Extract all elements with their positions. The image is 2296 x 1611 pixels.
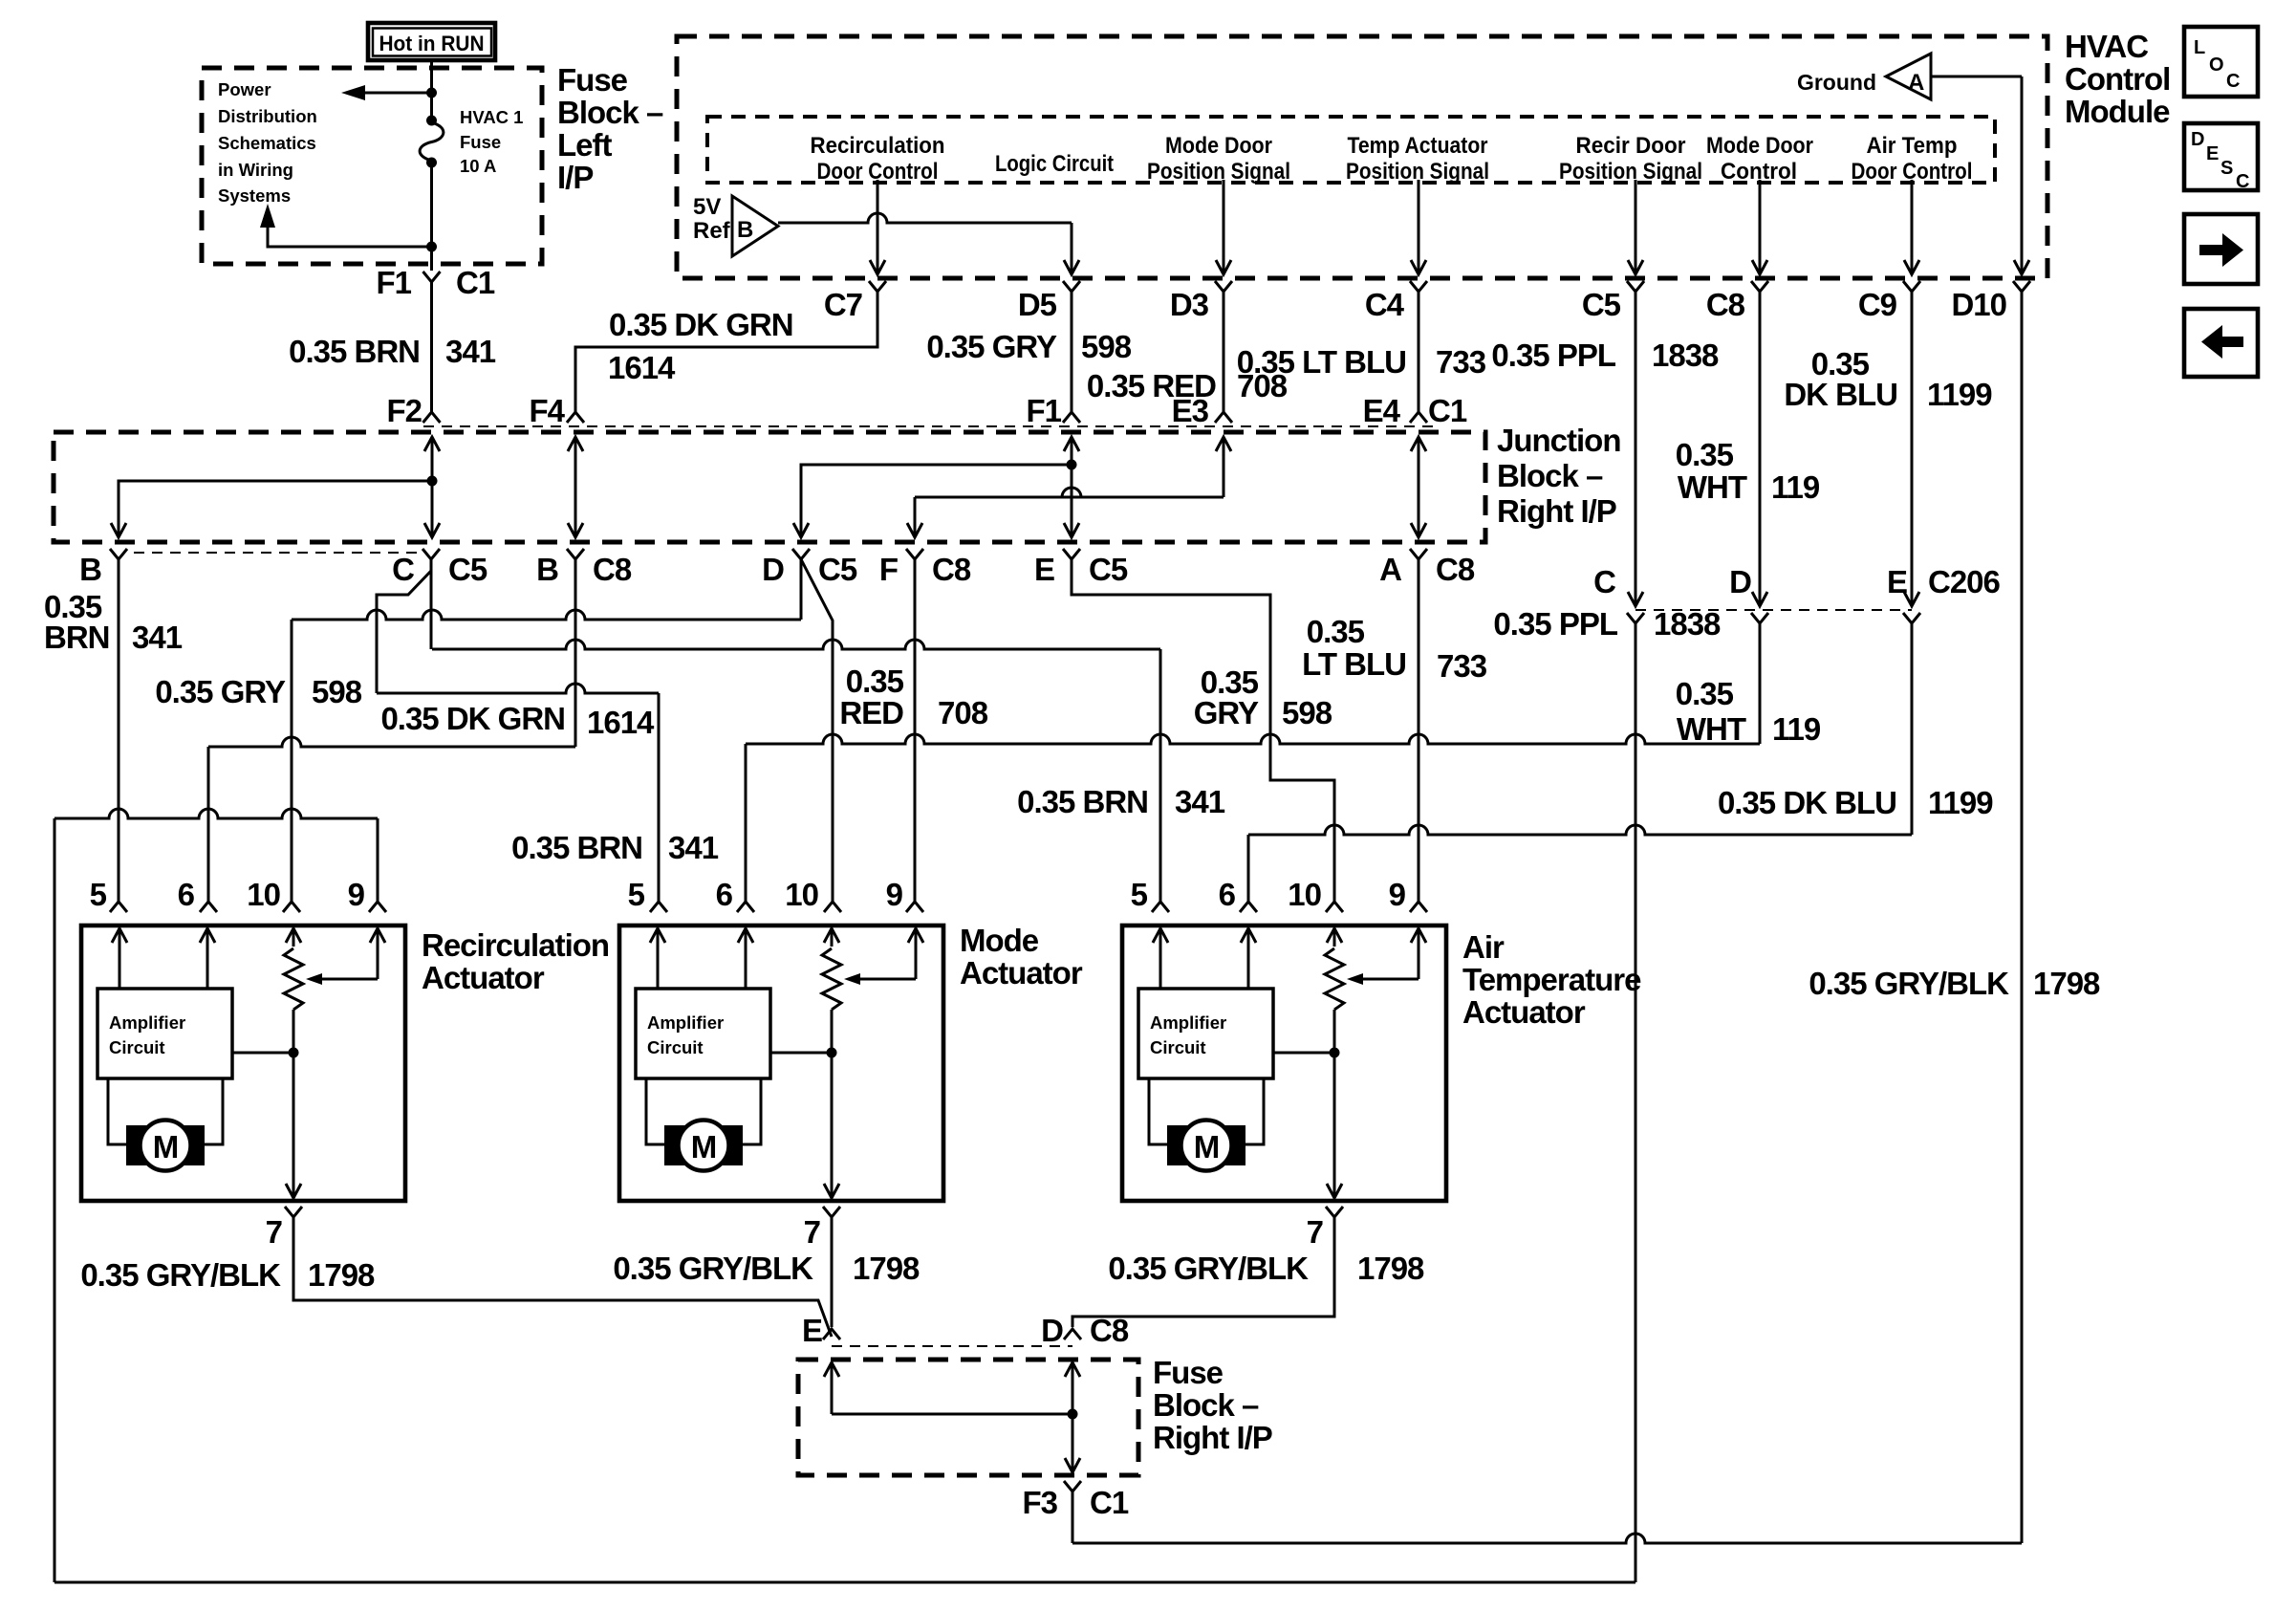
svg-text:A: A: [1379, 552, 1401, 587]
wire mode pin6 drop: [745, 744, 747, 902]
connector C206-E: [1903, 613, 1920, 623]
thin dashed connector line above junction block: [423, 425, 1439, 427]
wire C8 column to bus WHT 119: [1759, 292, 1762, 606]
wire C9 air temp door control: [1911, 180, 1914, 274]
svg-text:Fuse: Fuse: [1153, 1355, 1224, 1390]
svg-text:M: M: [1194, 1129, 1220, 1165]
connector F3/C1: [1064, 1481, 1081, 1491]
svg-text:708: 708: [938, 695, 988, 730]
bottom bus PPL 1838 return: [54, 1581, 1635, 1584]
svg-text:Amplifier: Amplifier: [109, 1012, 185, 1033]
svg-text:6: 6: [716, 877, 733, 912]
HVAC control module outer dashed box: [677, 36, 2047, 278]
connector F1/C1 of fuse block: [423, 272, 441, 282]
air temperature actuator motor brush right: [1224, 1125, 1245, 1165]
svg-text:D3: D3: [1170, 287, 1209, 322]
svg-text:C1: C1: [1428, 393, 1467, 428]
air temperature actuator motor brush left: [1167, 1125, 1188, 1165]
svg-text:Recirculation: Recirculation: [811, 133, 945, 159]
connector C4 below HVAC module: [1410, 281, 1427, 292]
svg-text:F: F: [879, 552, 898, 587]
node: junction dot at power arrow: [426, 88, 437, 98]
svg-text:C: C: [1593, 564, 1615, 599]
svg-text:DK BLU: DK BLU: [1784, 377, 1897, 412]
recirculation actuator amp output wire: [232, 1052, 293, 1055]
svg-text:Right I/P: Right I/P: [1153, 1420, 1272, 1455]
recirculation actuator wiper arrow from pin9: [320, 978, 378, 981]
recirculation actuator pin 6 entry arrow: [206, 928, 209, 968]
connector B below junction block: [110, 549, 127, 559]
svg-text:0.35: 0.35: [1676, 437, 1734, 472]
svg-text:D: D: [1729, 564, 1751, 599]
connector D3 below HVAC module: [1215, 281, 1232, 292]
svg-text:Junction: Junction: [1497, 423, 1621, 458]
svg-text:HVAC: HVAC: [2065, 29, 2148, 64]
connector C/C5 below junction block: [422, 549, 440, 559]
svg-text:C5: C5: [448, 552, 487, 587]
connector C9 below HVAC module: [1903, 281, 1920, 292]
connector D/C5 below junction block: [792, 549, 810, 559]
bottom bus ground return: [1072, 1534, 2022, 1543]
svg-text:C5: C5: [818, 552, 857, 587]
svg-text:Module: Module: [2065, 94, 2170, 129]
svg-text:D: D: [2191, 129, 2204, 150]
svg-text:0.35 PPL: 0.35 PPL: [1491, 337, 1615, 373]
svg-text:733: 733: [1437, 648, 1487, 684]
svg-text:7: 7: [266, 1214, 282, 1250]
mode actuator resistor position sensor: [822, 948, 841, 1010]
wire recirc pin10 drop: [291, 620, 293, 902]
wire D10 ground long drop: [2021, 292, 2024, 1543]
recirculation actuator actuator box: [81, 925, 405, 1201]
HVAC module inner dashed box (logic): [707, 117, 1995, 183]
wire F/C8 0.35 RED 708 to mode pin9: [914, 559, 917, 902]
connector C7 below HVAC module: [869, 281, 886, 292]
svg-text:M: M: [691, 1129, 717, 1165]
wire C8 mode door control: [1759, 180, 1762, 274]
svg-text:E: E: [802, 1313, 822, 1348]
air temperature actuator wire pin6 to amplifier: [1247, 968, 1250, 989]
svg-text:0.35 LT BLU: 0.35 LT BLU: [1237, 344, 1406, 380]
svg-text:1614: 1614: [608, 350, 676, 385]
svg-text:Actuator: Actuator: [1462, 994, 1586, 1030]
svg-text:Ref: Ref: [693, 218, 731, 244]
air temperature actuator pin 10 entry arrow: [1333, 928, 1336, 947]
junction block right I/P dashed box: [54, 432, 1485, 542]
bus1 0.35 GRY 598 to recirc pin10: [292, 610, 801, 620]
fuse block internal E branch: [831, 1362, 834, 1414]
junction internal E3-F link: [1223, 437, 1225, 497]
svg-text:O: O: [2209, 54, 2224, 76]
recirculation actuator motor brush left: [126, 1125, 147, 1165]
svg-text:598: 598: [1081, 329, 1132, 364]
svg-text:10: 10: [1288, 877, 1321, 912]
wire ground A to D10: [1931, 76, 2022, 78]
recirculation actuator node amp output dot: [289, 1048, 299, 1058]
LOC box: [2184, 27, 2258, 97]
svg-text:Block –: Block –: [1497, 458, 1603, 493]
svg-text:Distribution: Distribution: [218, 106, 317, 126]
svg-text:Fuse: Fuse: [557, 62, 628, 98]
svg-text:C8: C8: [1436, 552, 1475, 587]
junction internal E4 column: [1418, 437, 1420, 537]
svg-text:in Wiring: in Wiring: [218, 160, 293, 180]
connector E3 entry: [1215, 412, 1232, 423]
svg-text:1798: 1798: [308, 1257, 375, 1293]
svg-text:C5: C5: [1582, 287, 1621, 322]
connector D5 below HVAC module: [1063, 281, 1080, 292]
air temperature actuator wiper arrow from pin9: [1361, 978, 1419, 981]
svg-text:10: 10: [247, 877, 280, 912]
svg-text:Circuit: Circuit: [1150, 1037, 1206, 1057]
svg-text:Position Signal: Position Signal: [1559, 159, 1702, 185]
air temperature actuator pin 5 entry arrow: [1159, 928, 1162, 968]
svg-text:0.35 GRY: 0.35 GRY: [155, 674, 286, 709]
wire mode pin7 0.35 GRY/BLK: [831, 1217, 834, 1327]
node junction dot F1-D: [1067, 460, 1077, 470]
svg-text:0.35 DK GRN: 0.35 DK GRN: [609, 307, 793, 342]
power distribution return arrow (up): [268, 228, 432, 247]
mode actuator amp output wire: [770, 1052, 832, 1055]
mode actuator amplifier circuit box: [636, 989, 770, 1078]
wire 5V ref to logic circuit D5: [778, 213, 1072, 223]
svg-text:0.35 GRY/BLK: 0.35 GRY/BLK: [80, 1257, 281, 1293]
svg-text:I/P: I/P: [557, 160, 593, 195]
svg-text:Amplifier: Amplifier: [647, 1012, 724, 1033]
svg-text:C: C: [2236, 171, 2249, 192]
wire from Hot in RUN into fuse block: [430, 58, 433, 93]
svg-text:Block –: Block –: [1153, 1387, 1259, 1423]
wire C7 to F4 (0.35 DK GRN 1614): [575, 292, 877, 412]
bus4L DK GRN to recirc pin6: [208, 737, 575, 747]
connector B/C8 below junction block: [567, 549, 584, 559]
svg-text:0.35 DK BLU: 0.35 DK BLU: [1718, 785, 1896, 820]
wire C/C5 diagonal to x394: [377, 571, 431, 693]
mode actuator motor brush left: [664, 1125, 685, 1165]
recirculation actuator motor brush right: [184, 1125, 205, 1165]
wire recirc pin6 drop: [207, 747, 210, 902]
power feed box: Hot in RUN label box: [368, 23, 495, 60]
node: junction dot bottom of fuse block: [426, 242, 437, 252]
svg-text:5: 5: [628, 877, 645, 912]
svg-text:C1: C1: [456, 265, 495, 300]
wire D3 to E3 (0.35 RED 708): [1223, 292, 1225, 412]
fuse block right I/P dashed box (bottom): [798, 1360, 1138, 1475]
fuse block left I/P dashed box: [202, 68, 542, 264]
svg-text:C: C: [392, 552, 414, 587]
bus3 0.35 BRN 341 to mode pin5: [377, 684, 659, 693]
wire air pin5 drop: [1159, 649, 1162, 902]
recirculation actuator pin 5 entry arrow: [119, 928, 121, 968]
junction internal F2 column: [431, 437, 434, 537]
svg-text:Air Temp: Air Temp: [1867, 133, 1958, 159]
bus4R 0.35 WHT 119 to mode pin6: [1759, 623, 1762, 744]
svg-text:119: 119: [1771, 469, 1820, 505]
svg-text:0.35 BRN: 0.35 BRN: [511, 830, 642, 865]
air temperature actuator amp output wire: [1273, 1052, 1334, 1055]
connector E4 entry: [1410, 412, 1427, 423]
connector F4 entry: [567, 412, 584, 423]
wire B column 0.35 BRN 341 to recirc pin5: [118, 559, 120, 902]
svg-text:D: D: [762, 552, 784, 587]
svg-text:B: B: [737, 217, 753, 243]
svg-text:9: 9: [1389, 877, 1406, 912]
connector C8 below HVAC module: [1751, 281, 1768, 292]
svg-text:B: B: [536, 552, 558, 587]
svg-text:C9: C9: [1858, 287, 1897, 322]
svg-text:Circuit: Circuit: [109, 1037, 165, 1057]
node junction dot F2-B: [427, 476, 438, 487]
svg-text:Recir Door: Recir Door: [1576, 133, 1686, 159]
svg-text:6: 6: [1219, 877, 1236, 912]
wire C7 recirculation door control: [877, 180, 879, 274]
wire PPL 1838 long drop: [1635, 623, 1637, 1582]
svg-text:D5: D5: [1018, 287, 1057, 322]
mode actuator wire pin5 to amplifier: [657, 968, 660, 989]
svg-text:341: 341: [668, 830, 719, 865]
svg-text:1798: 1798: [2033, 966, 2100, 1001]
wire mode pin5 drop: [658, 693, 661, 902]
wire left loop down: [54, 818, 56, 1582]
svg-text:Mode: Mode: [960, 923, 1039, 958]
mode actuator pin 10 entry arrow: [831, 928, 834, 947]
svg-text:BRN: BRN: [44, 620, 110, 655]
air temperature actuator pin 9 entry arrow: [1418, 928, 1420, 979]
svg-text:Circuit: Circuit: [647, 1037, 704, 1057]
svg-text:598: 598: [312, 674, 362, 709]
mode actuator motor M: [679, 1121, 729, 1171]
svg-text:10 A: 10 A: [460, 156, 496, 176]
connector F2 entry to junction block: [423, 412, 441, 423]
wire recirc pin7 0.35 GRY/BLK: [293, 1217, 832, 1337]
recirculation actuator pin 7 connector: [285, 1207, 302, 1217]
air temperature actuator amplifier circuit box: [1138, 989, 1273, 1078]
svg-text:0.35: 0.35: [1307, 614, 1365, 649]
wire air pin7 0.35 GRY/BLK: [1072, 1217, 1334, 1327]
svg-text:0.35: 0.35: [1676, 676, 1734, 711]
svg-text:Power: Power: [218, 79, 271, 99]
svg-text:341: 341: [132, 620, 183, 655]
svg-text:GRY: GRY: [1194, 695, 1259, 730]
wire C4 temp actuator position: [1418, 180, 1420, 274]
wire C9 column to bus DK BLU: [1911, 292, 1914, 606]
svg-text:1838: 1838: [1654, 606, 1721, 642]
bus2 0.35 BRN 341 to air temp pin5: [432, 640, 1160, 649]
svg-text:Actuator: Actuator: [422, 960, 545, 995]
recirculation actuator motor feed right: [205, 1078, 223, 1144]
svg-text:Fuse: Fuse: [460, 132, 501, 152]
svg-text:C: C: [2226, 71, 2240, 92]
svg-text:0.35 DK GRN: 0.35 DK GRN: [380, 701, 565, 736]
svg-text:F1: F1: [376, 265, 411, 300]
svg-text:D10: D10: [1951, 287, 2006, 322]
svg-text:5V: 5V: [693, 194, 721, 220]
svg-text:C8: C8: [1706, 287, 1745, 322]
connector F1 entry: [1063, 412, 1080, 423]
ground symbol A: [1886, 54, 1931, 99]
svg-text:B: B: [79, 552, 101, 587]
svg-text:Recirculation: Recirculation: [422, 927, 609, 963]
svg-text:0.35 PPL: 0.35 PPL: [1493, 606, 1617, 642]
svg-text:Position Signal: Position Signal: [1147, 159, 1290, 185]
air temperature actuator pin 6 entry arrow: [1247, 928, 1250, 968]
connector E/C5 below junction block: [1063, 549, 1080, 559]
svg-text:E: E: [1887, 564, 1907, 599]
svg-text:0.35 GRY: 0.35 GRY: [926, 329, 1057, 364]
svg-text:0.35 GRY/BLK: 0.35 GRY/BLK: [1809, 966, 2009, 1001]
svg-text:HVAC 1: HVAC 1: [460, 107, 523, 127]
wire C5 recir door position: [1635, 180, 1637, 274]
svg-text:WHT: WHT: [1678, 469, 1747, 505]
svg-text:S: S: [2220, 158, 2233, 179]
air temperature actuator wire pin5 to amplifier: [1159, 968, 1162, 989]
mode actuator motor feed right: [743, 1078, 761, 1144]
svg-text:7: 7: [804, 1214, 820, 1250]
svg-text:1199: 1199: [1928, 785, 1993, 820]
svg-text:9: 9: [886, 877, 903, 912]
svg-text:Left: Left: [557, 127, 613, 163]
svg-text:F2: F2: [386, 393, 422, 428]
connector A/C8 below junction block: [1410, 549, 1427, 559]
svg-text:Temp Actuator: Temp Actuator: [1348, 133, 1488, 159]
wire from fuse down: [430, 163, 433, 247]
svg-text:Block –: Block –: [557, 95, 663, 130]
svg-text:0.35 BRN: 0.35 BRN: [289, 334, 420, 369]
wire C4 to E4 (0.35 LT BLU 733): [1418, 292, 1420, 412]
wire D3 mode door position: [1223, 180, 1225, 274]
svg-text:Hot in RUN: Hot in RUN: [379, 32, 485, 55]
svg-text:E3: E3: [1172, 393, 1209, 428]
air temperature actuator resistor position sensor: [1325, 948, 1344, 1010]
svg-text:D: D: [1041, 1313, 1063, 1348]
junction internal F4 column: [574, 437, 577, 537]
svg-text:10: 10: [785, 877, 818, 912]
connector C206-D: [1751, 613, 1768, 623]
svg-text:Logic Circuit: Logic Circuit: [995, 151, 1114, 177]
svg-text:C8: C8: [932, 552, 971, 587]
fuse F1 HVAC 1 10A element: [426, 116, 437, 126]
svg-text:Air: Air: [1462, 929, 1505, 965]
svg-text:0.35 GRY/BLK: 0.35 GRY/BLK: [1108, 1251, 1309, 1286]
wire C/C5 vertical to bus2: [430, 559, 433, 649]
recirculation actuator pin 10 entry arrow: [292, 928, 295, 947]
svg-text:Actuator: Actuator: [960, 955, 1083, 991]
bus6 recirc pin9 loop: [54, 809, 378, 818]
svg-text:1614: 1614: [587, 705, 655, 740]
mode actuator wire resistor to pin7: [831, 1010, 834, 1198]
wire A/C8 0.35 LT BLU 733 to air pin9: [1418, 559, 1420, 902]
svg-text:0.35 GRY/BLK: 0.35 GRY/BLK: [613, 1251, 813, 1286]
junction internal F1 column: [1071, 437, 1073, 537]
svg-text:C8: C8: [1090, 1313, 1129, 1348]
wire D10 ground: [2021, 76, 2024, 274]
junction internal branch to B: [119, 481, 432, 537]
thin dashed connector C206: [1635, 609, 1912, 611]
svg-text:Amplifier: Amplifier: [1150, 1012, 1226, 1033]
svg-text:C206: C206: [1928, 564, 2001, 599]
svg-text:RED: RED: [839, 695, 903, 730]
mode actuator pin 5 entry arrow: [657, 928, 660, 968]
air temperature actuator pin 7 connector: [1326, 1207, 1343, 1217]
svg-text:1199: 1199: [1927, 377, 1992, 412]
svg-text:5: 5: [90, 877, 107, 912]
svg-text:Mode Door: Mode Door: [1165, 133, 1272, 159]
air temperature actuator node amp output dot: [1330, 1048, 1340, 1058]
air temperature actuator actuator box: [1122, 925, 1446, 1201]
svg-text:L: L: [2194, 37, 2205, 58]
mode actuator actuator box: [619, 925, 943, 1201]
mode actuator pin 6 entry arrow: [745, 928, 747, 968]
svg-text:0.35 BRN: 0.35 BRN: [1017, 784, 1148, 819]
svg-text:1798: 1798: [1357, 1251, 1424, 1286]
svg-text:598: 598: [1282, 695, 1332, 730]
fuse block internal D column: [1072, 1362, 1074, 1472]
wire D/C5 diagonal to mode pin10: [801, 559, 833, 902]
svg-text:WHT: WHT: [1677, 711, 1746, 747]
svg-text:6: 6: [178, 877, 195, 912]
bus5 0.35 DK BLU 1199 to air pin6: [1911, 623, 1914, 835]
mode actuator motor feed left: [646, 1078, 664, 1144]
back arrow box: [2184, 309, 2258, 377]
svg-text:5: 5: [1131, 877, 1148, 912]
recirculation actuator motor feed left: [108, 1078, 126, 1144]
mode actuator pin 9 entry arrow: [915, 928, 918, 979]
svg-text:341: 341: [1175, 784, 1225, 819]
connector D10 below HVAC module: [2013, 281, 2030, 292]
wire into fuse HVAC 1: [430, 93, 433, 120]
svg-text:F4: F4: [529, 393, 565, 428]
svg-text:F3: F3: [1022, 1485, 1057, 1520]
mode actuator wiper arrow from pin9: [858, 978, 916, 981]
mode actuator motor brush right: [722, 1125, 743, 1165]
svg-text:7: 7: [1307, 1214, 1323, 1250]
connector F/C8 below junction block: [906, 549, 923, 559]
recirculation actuator resistor position sensor: [284, 948, 303, 1010]
svg-text:C1: C1: [1090, 1485, 1129, 1520]
svg-text:Temperature: Temperature: [1462, 962, 1641, 997]
thin dashed connector line below junction block: [134, 552, 418, 554]
connector C206-C: [1627, 613, 1644, 623]
wire recirc pin9 drop: [377, 818, 379, 902]
svg-text:Mode Door: Mode Door: [1706, 133, 1813, 159]
connector C5 below HVAC module: [1627, 281, 1644, 292]
node fuse block dot: [1068, 1409, 1078, 1420]
wire D/C5 vertical to bus1: [800, 559, 803, 620]
svg-text:F1: F1: [1026, 393, 1061, 428]
wire D5 logic circuit: [1071, 223, 1073, 274]
svg-text:E4: E4: [1363, 393, 1401, 428]
recirculation actuator wire pin5 to amplifier: [119, 968, 121, 989]
junction internal branch to D: [801, 465, 1072, 537]
wire C5 column to C206-C: [1635, 292, 1637, 606]
wire exits fuse block bottom: [430, 247, 433, 271]
op-amp B 5V Ref buffer: [732, 196, 778, 256]
svg-text:733: 733: [1436, 344, 1486, 380]
recirculation actuator wire resistor to pin7: [292, 1010, 295, 1198]
air temperature actuator motor feed left: [1149, 1078, 1167, 1144]
recirculation actuator motor M: [141, 1121, 191, 1171]
svg-text:LT BLU: LT BLU: [1302, 646, 1406, 682]
mode actuator pin 7 connector: [823, 1207, 840, 1217]
DESC box: [2184, 123, 2258, 190]
svg-text:M: M: [153, 1129, 179, 1165]
svg-text:A: A: [1908, 70, 1924, 96]
wire D5 to F1 (0.35 GRY 598): [1071, 292, 1073, 412]
svg-text:Systems: Systems: [218, 185, 291, 206]
svg-text:C5: C5: [1089, 552, 1128, 587]
svg-text:1838: 1838: [1652, 337, 1719, 373]
svg-text:C8: C8: [593, 552, 632, 587]
